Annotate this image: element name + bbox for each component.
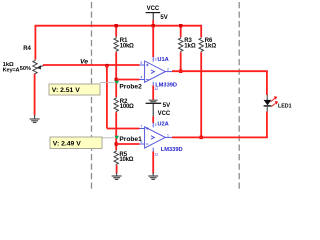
svg-text:U2A: U2A (157, 122, 168, 128)
node junction bus VCC stem (152, 24, 155, 27)
U2A pin numbers (140, 123, 169, 157)
U1A pin numbers (140, 57, 169, 91)
ground under R4 (30, 115, 40, 123)
svg-text:LM339D: LM339D (155, 82, 177, 88)
svg-text:50%: 50% (20, 66, 31, 72)
resistor R3 zigzag (179, 37, 183, 52)
wire R6 down to U2A output wire (200, 52, 202, 137)
probe box V 2.51 (49, 84, 100, 95)
wire pot bottom to ground (34, 74, 36, 116)
ground under U1A (inverted stack) (149, 100, 158, 102)
svg-text:Key=A: Key=A (3, 67, 20, 73)
svg-text:5V: 5V (163, 103, 170, 109)
probe Probe1 arrow (114, 136, 119, 140)
wire Ve drop vertical (106, 65, 108, 129)
probe Probe2 leader line (100, 82, 114, 84)
wire Ve horizontal (43, 64, 140, 66)
svg-text:4: 4 (140, 76, 142, 80)
page border dashed line left (91, 2, 93, 190)
LED LED1 (264, 95, 279, 113)
svg-text:R4: R4 (23, 46, 31, 52)
wire bus to R6 (200, 25, 202, 37)
wire node B to U2A lower input (116, 143, 139, 145)
wire U1A output to LED column (172, 70, 268, 72)
wire LED column lower (266, 112, 268, 138)
svg-text:V: 2.49 V: V: 2.49 V (53, 141, 81, 148)
VCC power symbol top (146, 6, 168, 21)
wire VCC stem to bus (152, 20, 154, 26)
wire bus to R3 (180, 26, 182, 37)
svg-text:Ve: Ve (80, 59, 88, 66)
wire bus to U1A V+ pin (152, 26, 154, 57)
potentiometer R4 zigzag (33, 60, 37, 75)
svg-text:5V: 5V (160, 15, 167, 21)
probe Probe1 leader line (102, 137, 114, 139)
svg-text:2: 2 (167, 68, 169, 72)
svg-text:VCC: VCC (147, 6, 160, 12)
svg-text:VCC: VCC (158, 111, 171, 117)
svg-text:12: 12 (154, 153, 158, 157)
wire R2 to node B (115, 112, 117, 150)
node junction A with U1A minus wire (115, 78, 118, 81)
wire U1A gnd pin down (152, 86, 154, 100)
wire U2A output to LED column (172, 136, 268, 138)
svg-text:7: 7 (140, 125, 142, 129)
svg-text:3: 3 (155, 57, 157, 61)
svg-text:10kΩ: 10kΩ (119, 157, 133, 163)
node junction R6 output (200, 136, 203, 139)
node junction R3 output (179, 70, 182, 73)
op-amp U2A comparator (140, 123, 173, 152)
svg-text:100Ω: 100Ω (120, 104, 134, 110)
VCC power symbol mid (bar up, stem down) (146, 103, 171, 117)
node junction bus R1 (115, 24, 118, 27)
wire U2A gnd pin down (152, 152, 154, 174)
page border dashed line right (238, 2, 240, 190)
node junction bus R3 (179, 24, 182, 27)
wire R1 to node A (115, 52, 117, 97)
svg-text:Probe2: Probe2 (119, 84, 142, 91)
wire R5 to ground (116, 165, 118, 173)
svg-text:1: 1 (167, 133, 169, 137)
wire pot top vertical (34, 26, 36, 60)
probe Probe2 arrow (114, 81, 119, 85)
resistor R2 zigzag (114, 97, 118, 112)
resistor R5 zigzag (114, 150, 118, 165)
svg-text:V: 2.51 V: V: 2.51 V (52, 87, 80, 94)
svg-text:LM339D: LM339D (161, 147, 183, 153)
svg-text:5: 5 (140, 61, 142, 65)
wire mid VCC stem to U2A V+ pin (152, 117, 154, 124)
wire Ve to U2A input (107, 128, 140, 130)
svg-text:10kΩ: 10kΩ (120, 43, 134, 49)
op-amp U1A comparator (140, 57, 173, 86)
wire LED column upper (266, 71, 268, 95)
svg-text:1kΩ: 1kΩ (184, 43, 196, 49)
svg-text:LED1: LED1 (278, 104, 292, 110)
wire node A to U1A lower input (116, 79, 139, 81)
wire R3 to U1A output wire (180, 52, 182, 71)
ground under U2A (148, 173, 158, 180)
resistor R1 zigzag (114, 37, 118, 53)
svg-text:Probe1: Probe1 (119, 136, 142, 143)
svg-text:U1A: U1A (157, 57, 168, 63)
R4 wiper arrow (36, 65, 41, 69)
wire bus to R1 (115, 26, 117, 37)
wire top 5V bus (35, 25, 202, 27)
svg-text:6: 6 (140, 140, 142, 144)
probe box V 2.49 (50, 137, 102, 149)
LED arrows (271, 98, 275, 101)
node junction Ve drop (105, 64, 108, 67)
node junction B with U2A minus wire (115, 142, 118, 145)
ground under R5 (112, 173, 122, 180)
svg-text:3: 3 (155, 123, 157, 127)
resistor R6 zigzag (199, 37, 203, 52)
svg-text:1kΩ: 1kΩ (205, 43, 217, 49)
